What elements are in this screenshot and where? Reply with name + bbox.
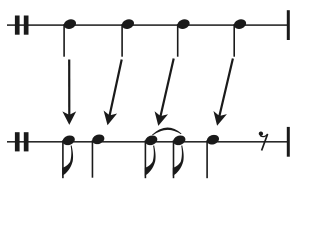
- quarter note E stem: [206, 140, 208, 178]
- eighth note D flag: [173, 145, 184, 176]
- arrow 3 (slanted): [155, 59, 174, 126]
- eighth note A (bottom staff) head: [61, 134, 76, 147]
- quarter note 3 (top staff) head: [176, 18, 191, 31]
- top staff line: [7, 24, 289, 26]
- bottom double bar (left): [15, 132, 29, 151]
- eighth note A stem: [62, 140, 64, 178]
- bottom final barline: [287, 127, 290, 157]
- quarter note 4 (top staff) stem: [233, 24, 235, 57]
- eighth note D stem: [173, 140, 175, 178]
- tie between notes C and D: [152, 127, 182, 135]
- arrow 2 (slanted): [104, 60, 122, 126]
- quarter note E (bottom staff) head: [206, 133, 221, 146]
- quarter note 2 (top staff) stem: [121, 24, 123, 57]
- quarter note 4 (top staff) head: [233, 18, 248, 31]
- eighth note C stem: [145, 140, 147, 178]
- top double bar (left): [15, 16, 29, 35]
- quarter note B (bottom staff) head: [91, 133, 106, 146]
- eighth note D (bottom staff) head: [172, 134, 187, 147]
- eighth note C flag: [145, 145, 156, 176]
- quarter note B stem: [92, 140, 94, 177]
- arrow 1 (vertical): [62, 60, 76, 125]
- top final barline: [287, 10, 290, 40]
- eighth note A flag: [62, 145, 73, 176]
- arrow 4 (slanted): [213, 59, 232, 126]
- quarter note 1 (top staff) head: [63, 18, 78, 31]
- bottom staff line: [7, 141, 289, 143]
- eighth rest: [259, 131, 268, 150]
- eighth note C (bottom staff) head: [144, 134, 159, 147]
- quarter note 3 (top staff) stem: [177, 24, 179, 57]
- quarter note 1 (top staff) stem: [63, 24, 65, 57]
- quarter note 2 (top staff) head: [121, 18, 136, 31]
